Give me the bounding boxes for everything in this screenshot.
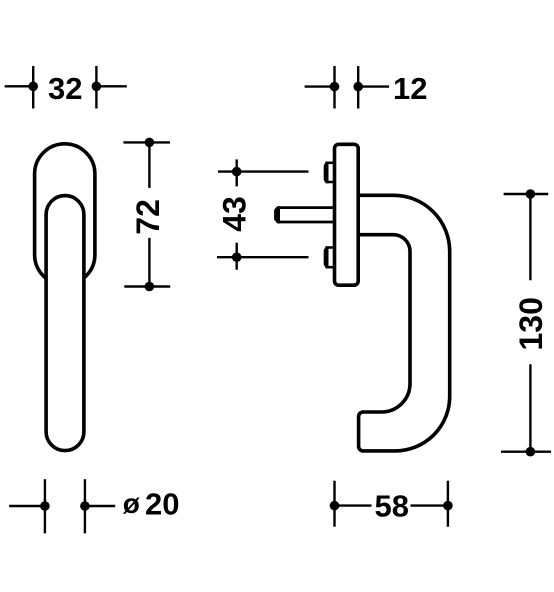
dim 12: dots [330,82,363,92]
svg-text:58: 58 [374,488,408,523]
dim 130: label (rotated) [513,297,549,350]
dim 72: dimension lines [123,142,170,286]
dim 43: dots [232,167,242,262]
dim 72: dots [145,138,155,292]
dim 130: dimension lines [501,194,551,452]
dim 43: label (rotated) [217,196,253,232]
dim 12: label [393,71,427,106]
svg-text:72: 72 [130,199,166,235]
dim 12: dimension lines [305,66,390,109]
svg-text:ø20: ø20 [123,487,180,522]
handle lever (front view) [46,196,84,451]
svg-text:130: 130 [513,297,549,350]
lower screw lug (side view) [324,246,336,268]
spindle end cap (filled) [274,206,280,223]
dim 130: dots [526,189,536,456]
dim diameter 20: label [123,487,180,522]
dim diameter 20: dimension lines [9,479,115,533]
svg-text:12: 12 [393,71,427,106]
handle side profile (side view) [357,195,450,451]
dim 58: dimension lines [335,481,448,527]
dim 32: dots [28,82,101,92]
dim 43: dimension lines [217,159,309,269]
svg-text:32: 32 [48,71,82,106]
upper screw lug (side view) [324,162,336,184]
dim diameter 20: dots [40,501,90,511]
rose escutcheon outline (front view) [35,144,95,285]
dim 72: label (rotated) [130,199,166,235]
dim 32: dimension lines [5,66,127,109]
svg-text:43: 43 [217,196,253,232]
dim 58: dots [330,501,453,511]
rose plate (side view) [335,144,359,285]
dim 32: label [48,71,82,106]
spindle bar (side view) [278,208,336,222]
dim 58: label [374,488,408,523]
